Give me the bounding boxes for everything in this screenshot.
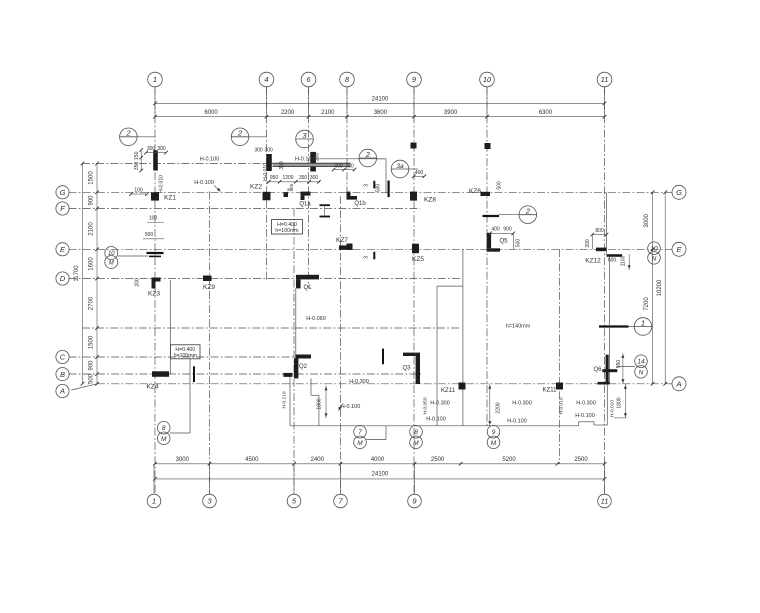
svg-text:6300: 6300 [539,110,553,116]
svg-text:300: 300 [254,148,263,154]
svg-text:7200: 7200 [644,297,650,311]
svg-text:1500: 1500 [89,335,95,349]
svg-text:350: 350 [134,162,140,171]
svg-text:300: 300 [264,148,273,154]
svg-text:20: 20 [287,187,293,192]
svg-text:350: 350 [279,161,285,170]
svg-text:300: 300 [345,164,354,170]
svg-text:10: 10 [108,251,115,257]
svg-text:150: 150 [134,151,140,160]
svg-text:KZ7: KZ7 [336,237,348,244]
svg-text:KZ8: KZ8 [424,197,436,204]
svg-text:3900: 3900 [444,110,458,116]
svg-text:H-0.100: H-0.100 [341,404,361,410]
svg-text:2100: 2100 [89,222,95,236]
svg-text:8: 8 [162,425,166,432]
svg-text:KZ11: KZ11 [543,388,558,394]
svg-text:1: 1 [152,497,156,506]
svg-text:Q1a: Q1a [299,202,311,208]
svg-text:2: 2 [365,150,371,159]
svg-text:950: 950 [270,175,279,181]
svg-text:H-0.300: H-0.300 [430,401,450,407]
svg-text:400: 400 [334,164,343,170]
svg-text:500: 500 [145,232,154,238]
svg-text:300: 300 [157,146,166,152]
svg-text:Q5: Q5 [499,239,508,245]
svg-text:500: 500 [497,181,503,190]
svg-text:KZ1: KZ1 [164,195,176,202]
svg-text:8: 8 [414,429,418,436]
svg-text:1200: 1200 [282,175,293,181]
svg-text:2500: 2500 [574,457,588,463]
svg-text:H-0.010: H-0.010 [559,397,565,414]
svg-text:6000: 6000 [204,110,218,116]
svg-text:9: 9 [492,429,496,436]
svg-text:KZ9: KZ9 [203,284,215,291]
svg-text:3000: 3000 [176,457,190,463]
svg-text:Q1: Q1 [303,285,312,291]
svg-text:H-0.010: H-0.010 [159,175,165,193]
svg-text:A: A [675,380,681,389]
svg-text:H-0.010: H-0.010 [263,163,269,181]
svg-text:2400: 2400 [311,457,325,463]
svg-text:7: 7 [358,429,362,436]
svg-text:2100: 2100 [321,110,335,116]
svg-text:100: 100 [134,187,143,193]
svg-text:2200: 2200 [281,110,295,116]
svg-text:900: 900 [89,360,95,371]
svg-text:C: C [60,353,66,362]
svg-text:10: 10 [650,245,658,252]
svg-text:A: A [59,387,65,396]
svg-text:N: N [652,255,657,262]
svg-text:4: 4 [264,75,268,84]
svg-text:G: G [676,188,682,197]
svg-text:KZ5: KZ5 [412,256,424,263]
svg-text:1: 1 [641,318,645,327]
svg-text:11: 11 [601,75,609,84]
svg-text:200: 200 [135,278,141,287]
svg-text:300: 300 [315,153,321,162]
svg-text:3000: 3000 [644,213,650,227]
svg-text:1100: 1100 [621,255,627,266]
svg-text:M: M [491,440,497,447]
svg-text:3: 3 [364,256,370,259]
svg-text:1800: 1800 [317,398,323,409]
svg-text:11700: 11700 [74,265,80,282]
svg-text:M: M [357,440,363,447]
svg-text:600: 600 [608,258,617,264]
svg-text:h=100mm: h=100mm [174,353,197,359]
svg-text:H-0.060: H-0.060 [306,316,326,322]
svg-text:Q6: Q6 [593,367,602,373]
svg-text:400: 400 [415,170,424,176]
svg-text:1500: 1500 [89,171,95,185]
svg-text:14: 14 [637,358,645,365]
svg-text:B: B [60,370,65,379]
svg-text:3a: 3a [396,163,404,170]
svg-text:4000: 4000 [371,457,385,463]
svg-text:KZ6: KZ6 [469,188,481,195]
svg-text:24100: 24100 [372,96,389,102]
svg-text:M: M [413,440,419,447]
svg-text:10200: 10200 [657,279,663,296]
svg-text:24100: 24100 [372,472,389,478]
svg-text:KZ12: KZ12 [585,258,601,265]
svg-text:H-0.100: H-0.100 [200,157,220,163]
svg-text:2: 2 [525,207,531,216]
svg-text:500: 500 [376,184,382,193]
svg-text:H-0.010: H-0.010 [610,400,616,417]
svg-text:11: 11 [601,497,609,506]
svg-text:2200: 2200 [496,402,502,413]
svg-text:800: 800 [595,228,604,234]
svg-text:10: 10 [483,75,492,84]
svg-text:1: 1 [153,75,157,84]
svg-text:200: 200 [585,239,591,248]
svg-text:H-0.100: H-0.100 [426,417,446,423]
svg-text:4500: 4500 [245,457,259,463]
svg-text:2700: 2700 [89,296,95,310]
svg-text:3: 3 [364,184,370,187]
svg-text:300: 300 [147,146,156,152]
svg-text:KZ2: KZ2 [250,184,262,191]
svg-text:H-0.100: H-0.100 [194,180,214,186]
svg-text:F: F [60,204,65,213]
svg-text:400: 400 [491,227,500,233]
svg-text:KZ4: KZ4 [147,384,159,391]
svg-text:H-0.100: H-0.100 [575,413,595,419]
svg-text:2500: 2500 [431,457,445,463]
svg-text:500: 500 [516,239,522,248]
svg-text:H-0.300: H-0.300 [512,401,532,407]
svg-text:D: D [60,274,66,283]
svg-text:900: 900 [89,195,95,206]
svg-text:M: M [109,261,114,267]
svg-text:1800: 1800 [617,397,623,408]
svg-text:3600: 3600 [374,110,388,116]
svg-text:KZ11: KZ11 [441,388,456,394]
svg-text:300: 300 [310,175,319,181]
svg-text:h=140mm: h=140mm [506,324,531,330]
svg-text:1600: 1600 [89,257,95,271]
svg-text:G: G [60,188,66,197]
svg-text:H-0.300: H-0.300 [349,379,369,385]
svg-text:KZ3: KZ3 [148,291,160,298]
svg-text:H-0.100: H-0.100 [507,419,527,425]
svg-text:Q3: Q3 [402,366,411,372]
svg-text:2: 2 [125,129,131,138]
svg-text:H-0.210: H-0.210 [282,391,288,408]
svg-text:Q1b: Q1b [354,201,366,207]
svg-text:5200: 5200 [502,457,516,463]
svg-text:H-0.050: H-0.050 [423,397,429,414]
svg-text:M: M [161,436,167,443]
svg-text:Q2: Q2 [299,364,308,370]
svg-text:350: 350 [299,175,308,181]
svg-text:500: 500 [89,373,95,384]
svg-text:H-0.300: H-0.300 [576,401,596,407]
svg-text:h=100mm: h=100mm [275,228,298,234]
svg-text:N: N [639,369,644,376]
svg-text:H-0.100: H-0.100 [295,156,315,162]
svg-text:2: 2 [237,129,243,138]
svg-text:550: 550 [616,360,622,369]
svg-text:900: 900 [503,227,512,233]
svg-text:100: 100 [149,216,158,222]
